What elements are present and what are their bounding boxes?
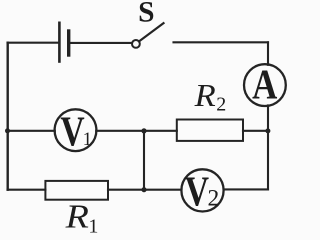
svg-text:S: S xyxy=(138,0,154,29)
wire R1 to V2 xyxy=(108,189,182,191)
ammeter A xyxy=(244,64,286,106)
voltmeter V1 circle xyxy=(55,109,97,151)
wire switch to top-right corner xyxy=(174,41,269,43)
node right junction xyxy=(265,128,270,133)
wire battery to switch xyxy=(70,42,132,44)
wire V2 to right rail xyxy=(224,188,268,190)
wire top-left horizontal (battery left lead) xyxy=(8,42,59,44)
label R1 xyxy=(65,197,99,237)
voltmeter V2 circle xyxy=(181,169,223,211)
label R2 xyxy=(194,78,227,116)
svg-text:V: V xyxy=(185,169,210,215)
svg-text:2: 2 xyxy=(216,94,226,116)
switch S xyxy=(132,23,164,48)
label V1 (voltmeter letter) xyxy=(60,109,92,155)
svg-text:A: A xyxy=(252,62,277,108)
wire R2 to right rail xyxy=(243,130,268,132)
label V2 (voltmeter letter) xyxy=(185,169,219,215)
node left junction xyxy=(5,128,10,133)
svg-text:V: V xyxy=(60,109,85,155)
wire V1 to R2 xyxy=(96,130,177,132)
svg-text:2: 2 xyxy=(208,185,220,211)
svg-text:1: 1 xyxy=(88,216,98,238)
svg-text:R: R xyxy=(65,197,89,235)
svg-text:1: 1 xyxy=(83,129,93,150)
battery B1 xyxy=(59,23,68,62)
node middle bottom junction xyxy=(141,187,146,192)
svg-text:R: R xyxy=(194,78,216,114)
wire left rail vertical xyxy=(6,43,8,190)
resistor R1 xyxy=(45,181,108,200)
wire middle vertical branch xyxy=(143,131,145,190)
wire middle rail left (to V1) xyxy=(8,130,55,132)
wire right rail lower xyxy=(267,105,269,189)
wire bottom rail left (to R1) xyxy=(8,189,46,191)
wire right rail upper (to ammeter) xyxy=(267,42,269,65)
resistor R2 xyxy=(177,120,243,141)
node middle top junction xyxy=(141,128,146,133)
